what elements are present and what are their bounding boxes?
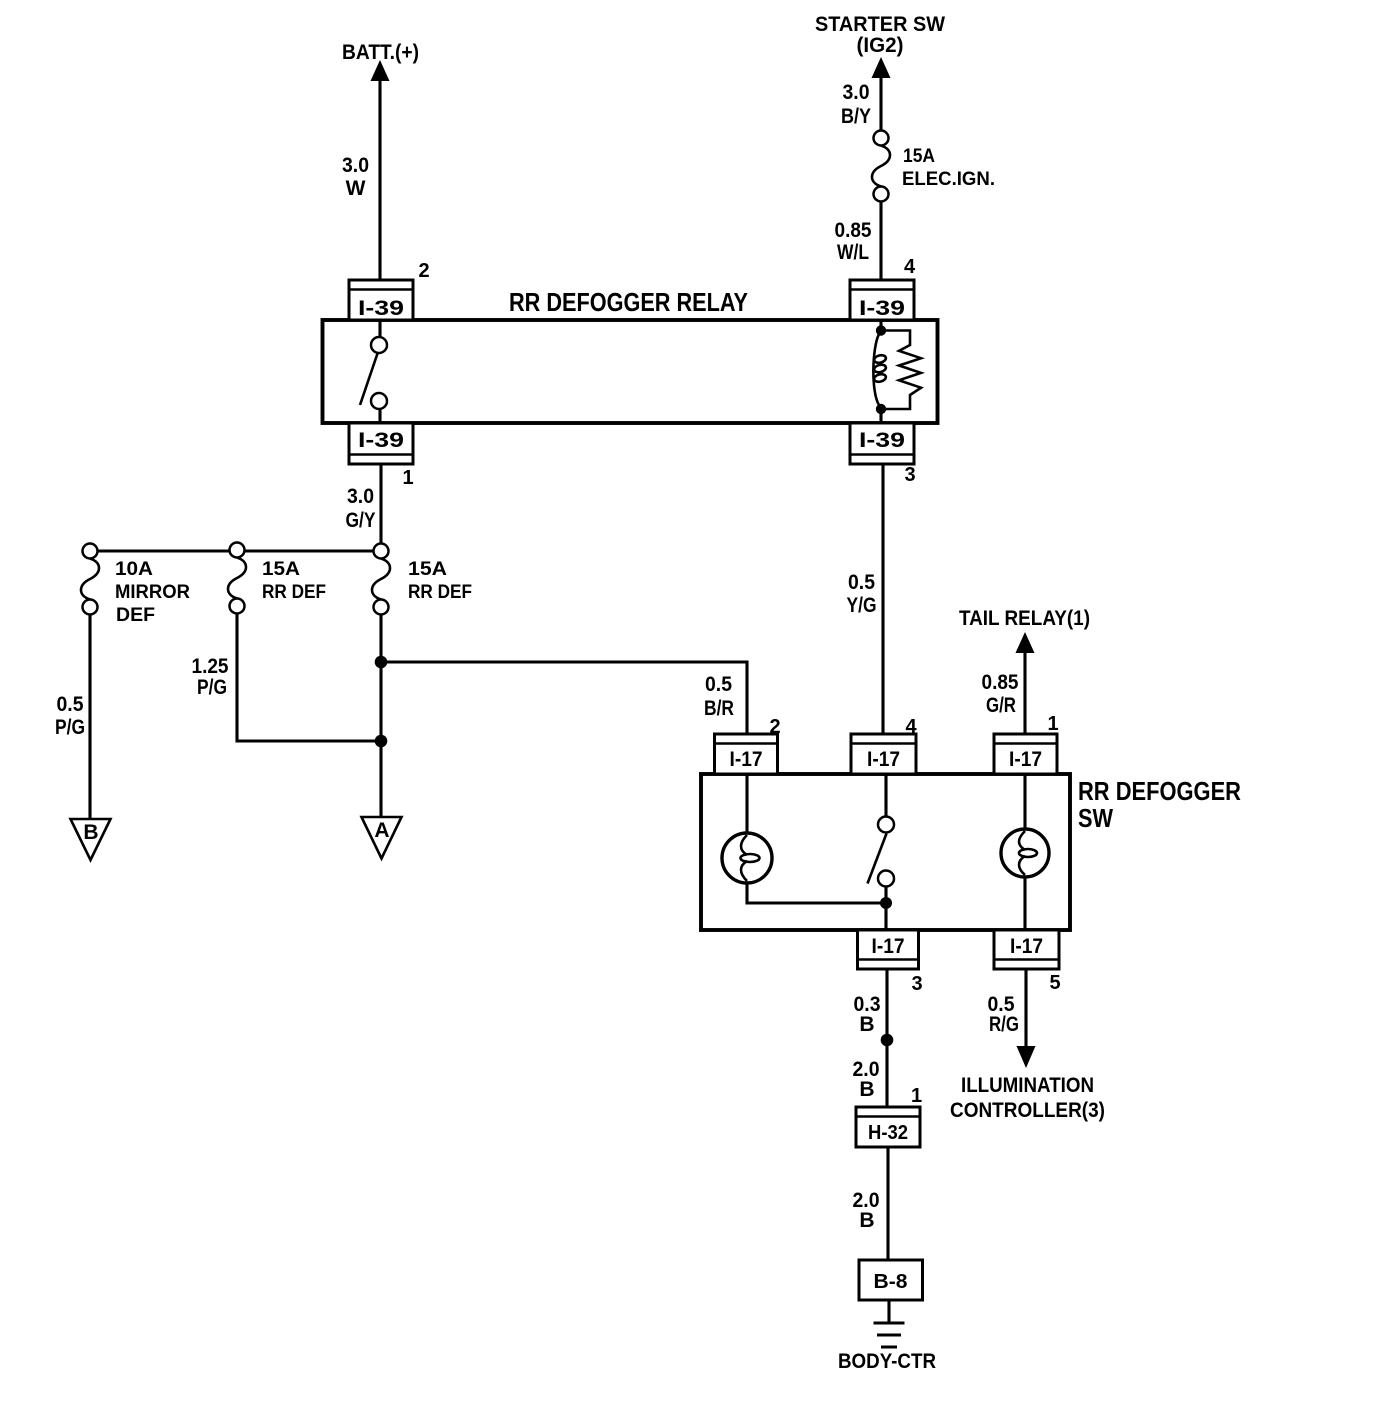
svg-text:I-39: I-39: [859, 297, 905, 320]
svg-text:4: 4: [905, 716, 917, 738]
svg-text:G/Y: G/Y: [346, 509, 376, 532]
svg-text:I-39: I-39: [358, 429, 404, 452]
svg-text:I-17: I-17: [1009, 748, 1042, 771]
connector I-39 pin 2 (top left): [349, 260, 430, 320]
svg-text:RR DEFOGGER: RR DEFOGGER: [1078, 776, 1241, 806]
connector I-17 pin 1: [994, 713, 1059, 774]
svg-text:15A: 15A: [408, 559, 447, 580]
svg-text:TAIL RELAY(1): TAIL RELAY(1): [959, 607, 1090, 630]
svg-text:0.5: 0.5: [57, 693, 84, 716]
connector I-39 pin 1 (bottom left): [349, 423, 414, 489]
svg-text:4: 4: [904, 256, 916, 278]
junction dot in sw: [880, 897, 892, 909]
svg-text:I-17: I-17: [1010, 935, 1043, 958]
svg-text:W: W: [346, 177, 366, 200]
ground triangle B: [71, 819, 111, 860]
svg-text:0.85: 0.85: [835, 219, 872, 242]
switch in defogger sw: [884, 774, 887, 817]
wire H-32 to B-8: [886, 1147, 889, 1260]
fuse 15A RR DEF (right): [372, 559, 390, 600]
svg-text:B/R: B/R: [704, 697, 734, 720]
connector I-17 pin 2: [715, 716, 781, 774]
svg-text:RR DEF: RR DEF: [262, 582, 326, 603]
arrow up BATT: [371, 60, 390, 81]
relay box RR DEFOGGER RELAY: [323, 320, 938, 423]
junction node dot lower: [375, 735, 388, 748]
relay switch contact: [378, 320, 381, 337]
wire fuse top bus horizontal: [90, 549, 381, 552]
svg-text:MIRROR: MIRROR: [115, 582, 190, 603]
svg-text:B: B: [83, 821, 98, 844]
svg-text:3: 3: [911, 973, 922, 995]
svg-text:I-17: I-17: [872, 935, 905, 958]
svg-text:I-39: I-39: [859, 429, 905, 452]
svg-text:A: A: [374, 819, 389, 842]
svg-text:H-32: H-32: [868, 1122, 908, 1144]
ground triangle A: [362, 817, 402, 859]
svg-text:Y/G: Y/G: [847, 594, 877, 617]
svg-text:15A: 15A: [903, 146, 935, 167]
svg-text:3: 3: [904, 464, 915, 486]
svg-text:RR DEFOGGER RELAY: RR DEFOGGER RELAY: [509, 287, 748, 317]
svg-text:B: B: [859, 1078, 874, 1101]
svg-text:1: 1: [1047, 713, 1058, 735]
svg-text:1.25: 1.25: [192, 655, 229, 678]
wire coil bottom to box edge: [879, 409, 882, 423]
svg-text:5: 5: [1049, 972, 1060, 994]
svg-text:DEF: DEF: [116, 605, 155, 626]
connector I-17 pin 5: [994, 930, 1061, 994]
connector H-32 pin 1: [856, 1085, 922, 1147]
svg-text:10A: 10A: [115, 559, 153, 580]
switch box RR DEFOGGER SW: [701, 774, 1070, 930]
wire BATT vertical: [378, 78, 381, 281]
svg-text:0.5: 0.5: [848, 571, 875, 594]
junction dot: [881, 1034, 894, 1047]
svg-text:ELEC.IGN.: ELEC.IGN.: [902, 169, 995, 190]
junction node dot upper: [375, 656, 388, 669]
junction dot coil bottom: [876, 404, 886, 414]
svg-text:0.85: 0.85: [982, 671, 1019, 694]
svg-text:ILLUMINATION: ILLUMINATION: [961, 1074, 1094, 1097]
arrow down illumination controller: [1017, 1046, 1036, 1068]
fuse 15A RR DEF (middle): [228, 558, 246, 599]
arrow up TAIL RELAY: [1016, 632, 1035, 653]
svg-text:I-39: I-39: [358, 297, 404, 320]
svg-text:15A: 15A: [262, 559, 300, 580]
svg-text:R/G: R/G: [989, 1013, 1019, 1036]
svg-text:0.5: 0.5: [705, 673, 732, 696]
wire B-8 to ground: [887, 1300, 890, 1323]
svg-text:B/Y: B/Y: [841, 105, 871, 128]
lamp left lower wire: [747, 883, 886, 903]
lamp left (illumination bulb): [745, 774, 748, 834]
wire starter vertical upper: [879, 75, 882, 131]
svg-text:3.0: 3.0: [342, 154, 369, 177]
svg-text:P/G: P/G: [55, 716, 85, 739]
svg-text:B-8: B-8: [874, 1271, 908, 1293]
wire I-39 pin1 down to fuse: [379, 464, 382, 544]
connector I-17 pin 4: [851, 716, 917, 774]
fuse 15A ELEC.IGN.: [872, 146, 890, 187]
svg-text:W/L: W/L: [837, 241, 869, 264]
svg-text:STARTER SW: STARTER SW: [815, 13, 945, 36]
wire fuse3 down to triangle A: [379, 615, 382, 818]
fuse 10A MIRROR DEF: [81, 559, 99, 600]
svg-text:B: B: [859, 1013, 874, 1036]
wire pin3 down to H-32: [885, 969, 888, 1107]
wire tail relay: [1023, 650, 1026, 734]
wire I-39 pin3 down to I-17 pin4: [881, 464, 884, 734]
svg-text:(IG2): (IG2): [857, 34, 904, 57]
wire pin5 down arrow: [1024, 969, 1027, 1050]
connector I-39 pin 3 (bottom right): [850, 423, 916, 486]
svg-text:BODY-CTR: BODY-CTR: [838, 1350, 936, 1373]
svg-text:3.0: 3.0: [347, 485, 374, 508]
relay resistor: [881, 331, 921, 410]
arrow up STARTER SW: [872, 57, 891, 78]
svg-text:1: 1: [402, 467, 413, 489]
svg-text:3.0: 3.0: [843, 81, 870, 104]
svg-text:2: 2: [769, 716, 780, 738]
wire fuse1 down to ground B: [88, 615, 91, 820]
svg-text:I-17: I-17: [867, 748, 900, 771]
wire junction to defogger sw pin2: [381, 662, 747, 734]
svg-text:BATT.(+): BATT.(+): [342, 41, 419, 64]
svg-text:RR DEF: RR DEF: [408, 582, 472, 603]
svg-text:SW: SW: [1078, 803, 1113, 833]
svg-text:I-17: I-17: [730, 748, 763, 771]
svg-text:P/G: P/G: [197, 676, 227, 699]
relay coil: [879, 320, 882, 334]
connector I-39 pin 4 (top right): [850, 256, 916, 320]
wire starter vertical lower: [879, 202, 882, 281]
svg-text:CONTROLLER(3): CONTROLLER(3): [950, 1099, 1105, 1122]
svg-text:G/R: G/R: [986, 694, 1016, 717]
junction dot coil top: [876, 325, 886, 335]
connector B-8: [859, 1260, 923, 1300]
ground BODY-CTR: [874, 1322, 905, 1325]
wire fuse2 down and right: [237, 614, 381, 742]
lamp right: [1023, 774, 1026, 829]
connector I-17 pin 3: [858, 930, 923, 995]
svg-text:B: B: [859, 1209, 874, 1232]
svg-text:2: 2: [418, 260, 429, 282]
svg-text:1: 1: [911, 1085, 922, 1107]
